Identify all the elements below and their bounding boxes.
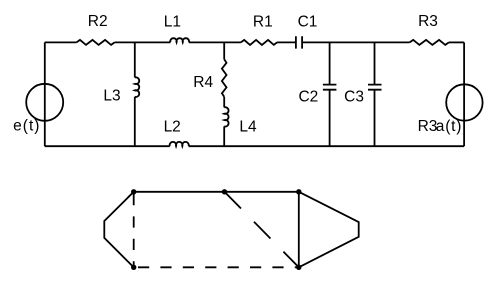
wire graph dashed vertical A-D xyxy=(133,192,135,267)
wire C2 branch lower xyxy=(329,90,331,147)
source e(t) xyxy=(26,84,63,121)
svg-text:L2: L2 xyxy=(164,118,181,135)
wire graph dashed diagonal B-E xyxy=(225,192,299,267)
svg-text:R3: R3 xyxy=(418,118,438,135)
wire right edge xyxy=(463,42,465,146)
inductor L1 xyxy=(170,38,189,42)
svg-text:L1: L1 xyxy=(164,14,181,31)
svg-text:C1: C1 xyxy=(298,14,318,31)
svg-text:L4: L4 xyxy=(239,118,257,135)
svg-text:R2: R2 xyxy=(88,13,108,30)
wire bottom-left segment xyxy=(45,145,170,147)
resistor R4 xyxy=(222,59,227,97)
svg-text:L3: L3 xyxy=(103,88,120,105)
svg-text:R4: R4 xyxy=(193,74,213,91)
node D xyxy=(131,265,136,270)
resistor R3 xyxy=(410,40,449,45)
wire graph right polyline C-E xyxy=(299,192,359,267)
wire L1 to R1 xyxy=(189,41,241,43)
wire graph vertical C-E xyxy=(298,192,300,267)
wire C3 branch lower xyxy=(374,90,376,147)
wire graph left polyline A-D xyxy=(104,192,133,267)
capacitor C2 xyxy=(323,85,337,90)
resistor R1 xyxy=(241,40,277,45)
wire L3 branch upper xyxy=(134,42,136,77)
wire left edge xyxy=(44,42,46,146)
wire L3 branch lower xyxy=(134,97,136,146)
capacitor C3 xyxy=(368,85,382,90)
inductor L3 xyxy=(135,77,139,97)
wire R4 to L4 xyxy=(223,97,225,108)
node A xyxy=(131,189,136,194)
wire C2 branch upper xyxy=(329,42,331,84)
capacitor C1 xyxy=(296,36,302,48)
node B xyxy=(222,189,227,194)
inductor L2 xyxy=(170,142,189,146)
wire graph dashed bottom D-E xyxy=(134,266,299,268)
svg-text:C2: C2 xyxy=(298,89,318,106)
resistor R2 xyxy=(77,40,115,45)
svg-text:a(t): a(t) xyxy=(436,118,462,135)
svg-text:R3: R3 xyxy=(418,13,438,30)
wire R3 to top-right corner xyxy=(449,41,464,43)
source a(t) xyxy=(446,84,482,120)
svg-text:e(t): e(t) xyxy=(13,117,40,134)
wire C1 to R3 xyxy=(302,41,410,43)
node E xyxy=(296,265,301,270)
node C xyxy=(296,189,301,194)
wire bottom-right segment xyxy=(189,145,465,147)
svg-text:C3: C3 xyxy=(344,89,364,106)
wire R1 to C1 xyxy=(277,41,296,43)
wire R2 to L1 xyxy=(115,41,171,43)
svg-text:R1: R1 xyxy=(253,14,273,31)
inductor L4 xyxy=(224,107,228,126)
wire C3 branch upper xyxy=(374,42,376,84)
wire graph top edge A-B-C xyxy=(134,191,299,193)
wire L4 branch lower xyxy=(223,126,225,146)
wire R4 branch upper xyxy=(223,42,225,59)
wire top-left segment xyxy=(45,41,77,43)
